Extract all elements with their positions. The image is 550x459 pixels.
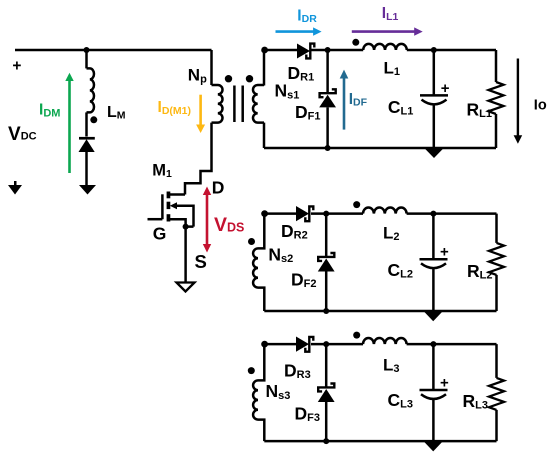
arrow ID(M1) yellow	[196, 95, 205, 133]
svg-text:IDR: IDR	[297, 7, 317, 25]
capacitor CL1 plates	[420, 95, 448, 104]
diode DR3 schottky cathode	[305, 337, 313, 352]
wire diode to arrow terminal	[85, 152, 88, 186]
resistor RL1 zigzag	[489, 82, 504, 114]
node DR2 cathode	[323, 211, 329, 217]
MOSFET body arrow head	[170, 202, 177, 209]
dot L1 polarity	[352, 39, 359, 46]
transformer primary winding Np	[212, 85, 223, 123]
wire source to ground	[184, 227, 187, 283]
dot transformer primary	[225, 75, 232, 82]
svg-text:Io: Io	[534, 97, 547, 113]
diode DR1 schottky cathode	[306, 44, 314, 59]
svg-text:VDC: VDC	[8, 124, 37, 145]
wire top-left input rail	[15, 49, 212, 52]
node Ns1 top corner	[261, 47, 268, 54]
node CL1 top	[431, 47, 437, 53]
wire DF1 branch bottom	[326, 107, 329, 148]
junction node top-left	[84, 47, 90, 53]
arrow terminal LM branch	[79, 185, 96, 195]
inductor L2	[363, 208, 407, 214]
svg-text:LM: LM	[107, 104, 126, 122]
svg-text:DF3: DF3	[295, 403, 320, 424]
wire sec1 top rail: node to DR1	[264, 49, 297, 52]
svg-text:Np: Np	[188, 65, 207, 85]
node CL2 top	[430, 211, 436, 217]
wire sec2 top rail left	[264, 212, 297, 215]
svg-text:IL1: IL1	[382, 5, 399, 23]
dot L2 polarity	[353, 201, 360, 208]
arrow IDR cyan	[276, 27, 322, 35]
dot transformer secondary	[246, 75, 253, 82]
svg-text:+: +	[12, 57, 21, 74]
MOSFET drain lead	[168, 193, 185, 196]
wire DF3 top	[325, 344, 328, 387]
svg-text:IDF: IDF	[349, 91, 368, 109]
svg-text:G: G	[153, 223, 167, 243]
wire sec3 top rail left	[264, 343, 297, 346]
svg-text:IDM: IDM	[39, 102, 60, 120]
wire Lm branch top	[85, 50, 88, 68]
svg-text:CL3: CL3	[388, 390, 413, 411]
arrow IL1 purple	[352, 27, 423, 35]
ground sec1	[425, 148, 444, 158]
svg-text:Ns1: Ns1	[275, 81, 300, 102]
svg-text:Ns2: Ns2	[268, 244, 293, 265]
svg-text:+: +	[440, 375, 449, 392]
node CL3 top	[430, 341, 436, 347]
resistor RL1 leads	[495, 50, 498, 148]
dot LM polarity	[90, 116, 97, 123]
svg-text:DR2: DR2	[281, 221, 308, 242]
arrow Io black	[514, 59, 523, 144]
wire CL3 top	[432, 344, 435, 390]
svg-text:M1: M1	[152, 162, 172, 181]
diode DR3	[296, 337, 309, 352]
svg-text:L3: L3	[383, 356, 400, 376]
wire DF3 bottom	[325, 402, 328, 442]
svg-text:S: S	[195, 251, 207, 272]
wire DR3 to L3	[311, 343, 363, 346]
svg-text:L2: L2	[383, 224, 400, 244]
ground sec2	[424, 311, 443, 321]
wire L3 to RL3 corner	[407, 343, 497, 346]
arrow IDM green	[65, 73, 73, 173]
MOSFET channel bar bottom	[167, 214, 171, 221]
node Ns3 top	[261, 341, 268, 348]
wire Ns1 top	[263, 50, 266, 86]
node DF3 bottom	[323, 438, 329, 444]
wire CL1 bottom	[433, 104, 436, 148]
wire primary bottom to staircase	[185, 123, 212, 195]
winding Ns2	[253, 214, 264, 311]
node DF1 bottom	[325, 145, 331, 151]
wire CL2 bottom	[432, 268, 435, 311]
wire CL2 top	[432, 214, 435, 260]
svg-text:Ns3: Ns3	[266, 381, 291, 402]
diode DF1 schottky cathode	[320, 89, 336, 97]
wire sec3 bottom rail	[264, 440, 496, 443]
capacitor CL2 plates	[420, 259, 448, 268]
wire sec1 bottom rail	[264, 147, 496, 150]
wire DR2 to L2	[311, 212, 363, 215]
wire L1 to RL1 corner	[407, 49, 496, 52]
wire sec2 bottom rail	[264, 310, 496, 313]
MOSFET channel bar middle	[167, 202, 171, 209]
wire Ns1 bottom	[263, 123, 266, 148]
svg-text:DF2: DF2	[291, 270, 316, 291]
diode DR1	[297, 44, 310, 59]
arrow VDS red double	[203, 187, 211, 253]
svg-text:+: +	[441, 80, 450, 97]
ground sec3	[424, 441, 443, 451]
diode DF2	[318, 259, 335, 272]
node Ns2 top	[261, 210, 268, 217]
transformer core	[234, 86, 242, 123]
svg-text:RL3: RL3	[463, 391, 488, 412]
resistor RL2 leads	[495, 214, 498, 311]
resistor RL2 zigzag	[489, 243, 504, 275]
svg-text:ID(M1): ID(M1)	[158, 99, 191, 117]
node DR3 cathode	[323, 341, 329, 347]
svg-text:VDS: VDS	[214, 214, 244, 236]
inductor LM	[87, 68, 95, 112]
diode DF1	[319, 95, 336, 108]
capacitor CL3 plates	[420, 390, 448, 399]
svg-text:RL1: RL1	[467, 99, 492, 120]
svg-text:CL2: CL2	[388, 260, 413, 281]
wire Lm to diode	[85, 112, 88, 136]
diode DR2 schottky cathode	[305, 206, 313, 221]
wire DF2 bottom	[325, 271, 328, 311]
diode below LM pointing up	[79, 139, 95, 152]
node DF1 top	[325, 47, 331, 53]
svg-text:RL2: RL2	[467, 261, 492, 282]
wire primary branch down	[210, 50, 213, 85]
diode DF3 schottky cathode	[318, 384, 334, 392]
wire DR1 cathode to DF1 node	[311, 49, 363, 52]
diode DF2 schottky cathode	[318, 253, 334, 261]
dot Ns2 polarity	[248, 238, 255, 245]
inductor L1	[363, 44, 407, 50]
arrow IDF teal	[340, 70, 349, 130]
MOSFET source lead	[168, 219, 193, 226]
arrow terminal left (minus)	[8, 185, 22, 195]
svg-text:+: +	[440, 244, 449, 261]
resistor RL3 leads	[495, 344, 498, 441]
MOSFET channel bar top	[167, 192, 171, 199]
svg-text:DF1: DF1	[295, 102, 320, 123]
wire DF2 top	[325, 214, 328, 257]
MOSFET gate lead	[148, 218, 163, 221]
svg-text:CL1: CL1	[388, 97, 413, 118]
svg-text:L1: L1	[384, 58, 401, 78]
wire L2 to RL2 corner	[407, 212, 497, 215]
wire DF1 branch top	[326, 50, 329, 93]
svg-text:DR3: DR3	[284, 361, 311, 382]
MOSFET gate bar	[161, 194, 164, 219]
resistor RL3 zigzag	[489, 378, 504, 410]
wire CL1 branch top	[433, 50, 436, 95]
node MOSFET source	[183, 224, 189, 230]
winding Ns3	[253, 344, 264, 441]
svg-text:DR1: DR1	[288, 63, 315, 84]
diode DR2	[296, 206, 309, 221]
dot L3 polarity	[353, 332, 360, 339]
transformer secondary winding Ns1	[253, 85, 264, 123]
MOSFET body arrow line	[174, 206, 194, 227]
dot Ns3 polarity	[248, 367, 255, 374]
ground symbol MOSFET open triangle	[177, 283, 195, 292]
svg-text:D: D	[212, 178, 225, 198]
node DF2 bottom	[323, 308, 329, 314]
diode DF3	[318, 389, 335, 402]
inductor L3	[363, 338, 407, 344]
wire CL3 bottom	[432, 399, 435, 441]
